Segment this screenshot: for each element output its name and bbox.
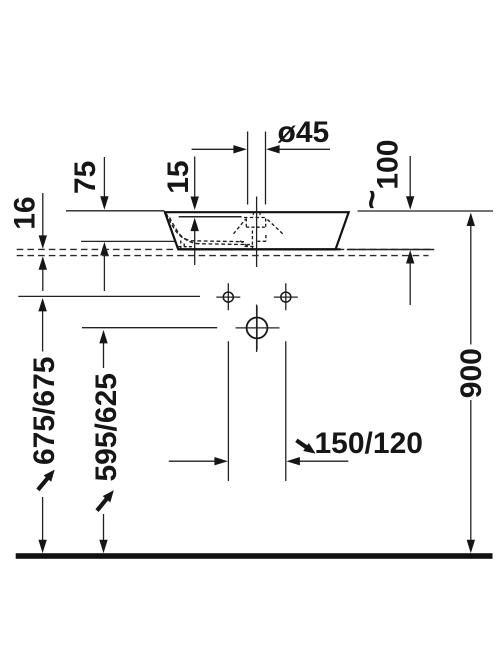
dimension 595/625 shaft [103,343,105,541]
arrow 16 down [39,235,47,249]
svg-text:595/625: 595/625 [90,373,123,481]
drain funnel top dashed [244,217,267,219]
dimension line o45 [192,148,330,150]
arrow 675/675 up [38,298,46,312]
arrow 675/675 down [38,540,46,554]
counter top dashed line [17,248,434,250]
rim extension line left [66,210,165,212]
leader arrow 595/625 [97,490,114,510]
drain funnel inner dashed [246,219,266,228]
supply hole right crosshair [274,283,298,310]
arrow ~100 up [406,250,414,264]
washbasin bottom edge overdraw [178,248,340,250]
extension vertical left (150/120) [227,341,229,481]
svg-text:75: 75 [69,161,102,194]
dimension 16 shaft [42,193,44,291]
dimension ~100 shaft [409,156,411,305]
bowl hidden contour outer [166,214,244,242]
arrow o45 right [266,145,280,153]
arrow 595/625 up [99,330,107,344]
svg-text:900: 900 [455,348,488,398]
arrow 16 up [39,256,47,270]
bowl corner foot dashes [179,241,195,250]
washbasin outline (side section) [165,212,349,249]
centre line of drain [256,197,258,353]
bowl bottom extension line [81,240,175,242]
leader arrow 675/675 [38,470,55,490]
svg-text:ø45: ø45 [278,116,330,149]
drain top ticks [253,213,260,218]
svg-text:16: 16 [8,196,41,229]
drain outlet circle [247,318,268,339]
dimension 900 shaft [470,226,472,541]
basin inner rim line [179,216,242,218]
counter bottom dashed line [17,255,429,257]
drain level extension line [82,327,217,329]
arrow 900 down [467,540,475,554]
dimension line 150/120 [169,460,348,462]
arrow 75 down [100,196,108,210]
drain outlet crosshair [236,306,280,350]
svg-text:15: 15 [162,160,195,193]
arrow 15 down [191,197,199,211]
rim extension line right [358,210,494,212]
arrow o45 left [233,145,247,153]
dimension 675/675 shaft [42,311,44,541]
arrow 150/120 left pointing right [214,457,228,465]
bowl bottom to drain connector dashes [240,241,255,247]
svg-text:~100: ~100 [353,140,405,210]
counter solid extension right [347,249,434,251]
arrow 150/120 right pointing left [286,457,300,465]
floor line [16,553,493,559]
arrow ~100 down [406,196,414,210]
drain hole extension line right [265,132,267,205]
arrow 900 up [467,213,475,227]
supply hole left circle [223,292,233,302]
drain hole extension line left [247,132,249,205]
dimension 75 shaft [103,157,105,291]
dimension 15 shaft [194,157,196,266]
supply hole right circle [281,292,291,302]
supply level extension line [18,295,200,297]
drain funnel outer slopes dashed [234,219,284,235]
arrow 595/625 down [99,540,107,554]
arrow 15 up [191,218,199,232]
extension vertical right (150/120) [285,341,287,481]
supply hole left crosshair [216,283,240,310]
bowl hidden contour inner [170,218,251,245]
leader arrow 150/120 [296,440,315,453]
arrow 75 up [100,242,108,256]
drain pipe dashed [252,231,266,249]
svg-text:150/120: 150/120 [315,427,423,460]
svg-text:675/675: 675/675 [28,357,61,465]
